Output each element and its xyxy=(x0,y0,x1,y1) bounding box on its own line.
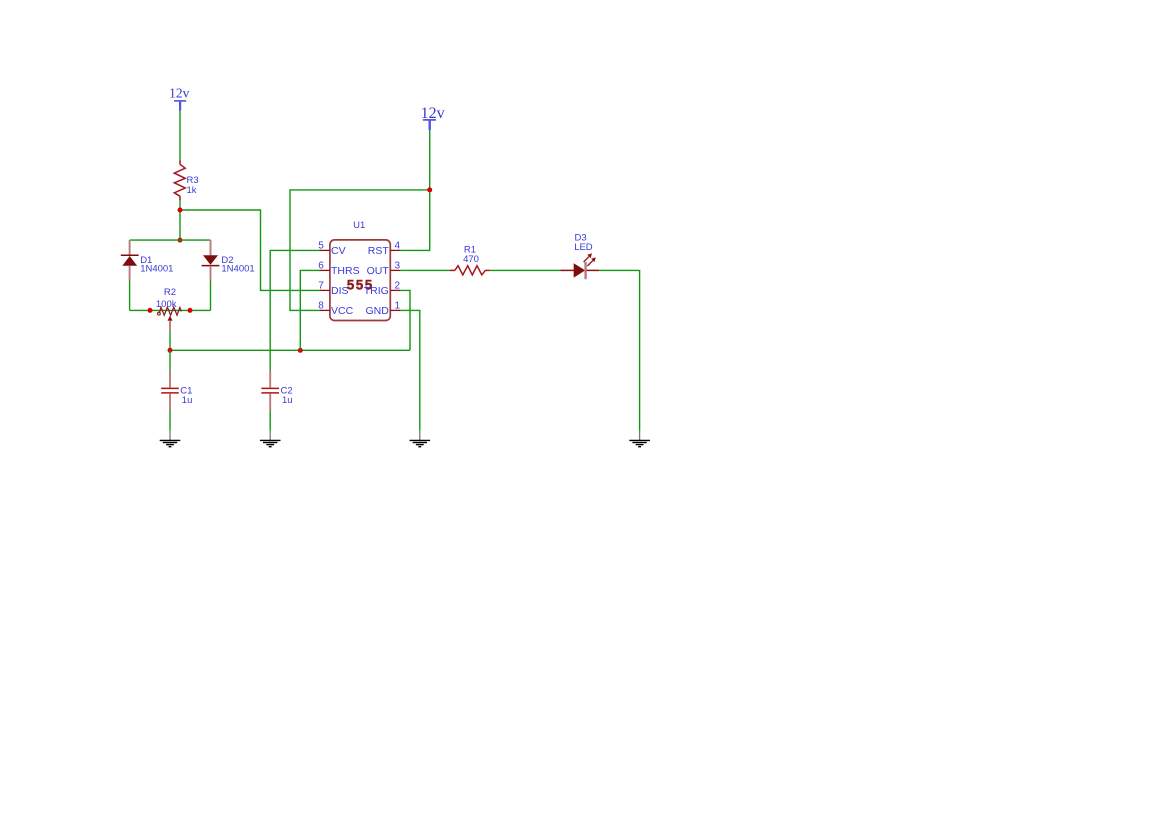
svg-text:1N4001: 1N4001 xyxy=(221,263,254,274)
wire THRS to bus xyxy=(300,270,320,350)
node pot right terminal xyxy=(188,308,193,313)
svg-text:12v: 12v xyxy=(169,86,190,101)
potentiometer R2 100k xyxy=(156,287,181,331)
wire D2 to box bottom xyxy=(210,281,212,311)
svg-text:DIS: DIS xyxy=(331,285,349,297)
svg-text:1u: 1u xyxy=(282,395,293,406)
svg-text:3: 3 xyxy=(395,260,401,271)
pin 1 GND stub xyxy=(390,309,400,311)
capacitor C1 xyxy=(161,350,192,410)
svg-text:LED: LED xyxy=(574,242,593,253)
pin 8 VCC stub xyxy=(320,309,330,311)
node pot left terminal xyxy=(148,308,153,313)
svg-text:470: 470 xyxy=(463,254,479,265)
wire diode box top xyxy=(130,239,211,241)
ground (LED) xyxy=(629,431,650,447)
pin 3 OUT stub xyxy=(390,269,400,271)
svg-text:100k: 100k xyxy=(156,299,177,310)
LED D3 xyxy=(560,233,599,280)
svg-text:1u: 1u xyxy=(182,395,193,406)
pin 4 RST stub xyxy=(390,249,400,251)
wire VCC to top rail xyxy=(290,190,430,311)
svg-text:7: 7 xyxy=(318,280,324,291)
wire OUT to R1 xyxy=(400,269,450,271)
svg-text:2: 2 xyxy=(395,280,401,291)
svg-text:RST: RST xyxy=(368,245,390,257)
svg-text:TRIG: TRIG xyxy=(364,285,389,297)
wire bottom bus wiper to TRIG corner xyxy=(170,349,410,351)
pin 5 CV stub xyxy=(320,249,330,251)
wire R1 to LED xyxy=(490,269,561,271)
wire diode box bottom xyxy=(130,309,211,311)
node THRS/bus junction xyxy=(298,348,303,353)
svg-text:5: 5 xyxy=(318,240,324,251)
wire CV to C2 xyxy=(270,250,320,371)
node junction R3/DIS xyxy=(178,208,183,213)
wire C1 to ground xyxy=(169,411,171,431)
wire TRIG to bus xyxy=(400,290,410,350)
wire 12v down to RST xyxy=(400,130,430,250)
svg-text:VCC: VCC xyxy=(331,305,354,317)
ground (C2) xyxy=(260,431,281,447)
wire junction to DIS (right then down then right) xyxy=(180,210,320,290)
svg-text:GND: GND xyxy=(365,305,389,317)
node wiper/C1/bus junction xyxy=(168,348,173,353)
ground (555 GND) xyxy=(410,431,431,447)
diode D1 xyxy=(121,240,174,280)
op 555 timer U1 xyxy=(318,220,400,321)
power port 12v (right) xyxy=(421,105,445,130)
svg-text:1: 1 xyxy=(395,300,401,311)
node 12v rail junction xyxy=(427,187,432,192)
power port 12v (left) xyxy=(169,86,190,111)
resistor R3 xyxy=(174,161,198,200)
resistor R1 470 xyxy=(450,244,490,275)
ground (C1) xyxy=(160,431,181,447)
svg-text:6: 6 xyxy=(318,260,324,271)
pin 2 TRIG stub xyxy=(390,289,400,291)
svg-text:1k: 1k xyxy=(187,185,197,196)
wire pot wiper down xyxy=(169,331,171,350)
wire GND pin to ground xyxy=(400,310,420,430)
svg-text:8: 8 xyxy=(318,300,324,311)
svg-text:U1: U1 xyxy=(353,220,365,231)
svg-text:1N4001: 1N4001 xyxy=(140,263,173,274)
capacitor C2 xyxy=(261,371,292,411)
wire LED to ground xyxy=(599,270,639,430)
wire 12v to R3 xyxy=(179,111,181,162)
svg-text:R2: R2 xyxy=(164,287,176,298)
pin 6 THRS stub xyxy=(320,269,330,271)
diode D2 xyxy=(202,240,255,280)
wire C2 to ground xyxy=(269,411,271,431)
svg-text:OUT: OUT xyxy=(367,265,390,277)
wire R3 to junction xyxy=(179,200,181,240)
svg-text:CV: CV xyxy=(331,245,346,257)
svg-text:THRS: THRS xyxy=(331,265,360,277)
pin 7 DIS stub xyxy=(320,289,330,291)
svg-text:4: 4 xyxy=(395,240,401,251)
node junction diode-box top xyxy=(178,238,183,243)
wire D1 to box bottom xyxy=(129,281,131,311)
